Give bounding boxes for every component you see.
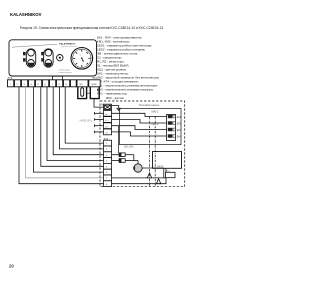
svg-text:20: 20	[9, 264, 14, 269]
svg-text:КМ1-2: КМ1-2	[152, 111, 160, 114]
svg-text:N/PE: N/PE	[92, 84, 98, 86]
svg-text:температура: температура	[59, 69, 71, 71]
svg-text:≈400В 50Гц: ≈400В 50Гц	[79, 120, 93, 123]
svg-text:сделано в России: сделано в России	[61, 46, 77, 48]
svg-text:КМ2-2: КМ2-2	[152, 123, 160, 126]
svg-text:ЕК4: ЕК4	[177, 136, 182, 139]
svg-text:RK1 - терморезистор;: RK1 - терморезистор;	[97, 92, 127, 96]
svg-text:SK1 SK2: SK1 SK2	[124, 146, 134, 149]
svg-text:KALASHNIKOV: KALASHNIKOV	[10, 12, 42, 17]
svg-text:ЕК3: ЕК3	[177, 129, 182, 132]
svg-text:ЕК2: ЕК2	[177, 123, 182, 126]
svg-text:теплоносителя: теплоносителя	[59, 72, 72, 74]
svg-text:Рисунок 19. Схема электрическа: Рисунок 19. Схема электрическая принципи…	[20, 26, 164, 30]
svg-text:Тепловая панель: Тепловая панель	[139, 103, 160, 107]
svg-text:°C: °C	[79, 55, 82, 57]
svg-text:насос: насос	[157, 165, 164, 168]
svg-text:RK2 - датчик.: RK2 - датчик.	[106, 96, 125, 100]
svg-text:ЕК1: ЕК1	[177, 116, 182, 119]
